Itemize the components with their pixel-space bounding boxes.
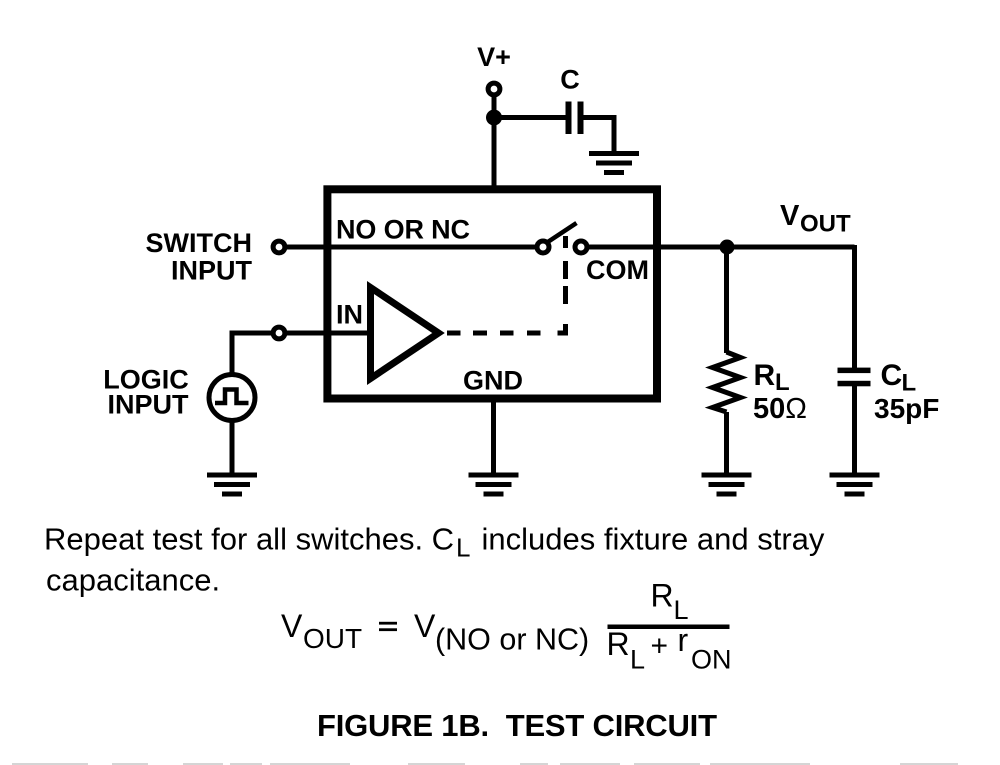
- wire VOUT corner to capacitor CL: [852, 245, 857, 368]
- svg-text:L: L: [456, 533, 470, 563]
- svg-text:C: C: [560, 65, 580, 95]
- svg-text:FIGURE 1B. TEST CIRCUIT: FIGURE 1B. TEST CIRCUIT: [317, 708, 717, 743]
- svg-text:50Ω: 50Ω: [753, 393, 807, 425]
- wire V+ terminal to junction: [492, 95, 497, 118]
- svg-text:NO OR NC: NO OR NC: [336, 215, 470, 245]
- switch S1 contact left: [537, 241, 549, 253]
- ground (below CL): [830, 473, 880, 497]
- svg-text:35pF: 35pF: [874, 393, 939, 424]
- wire COM to VOUT corner: [589, 245, 855, 250]
- svg-text:L: L: [775, 369, 790, 396]
- wire logic source corner to terminal: [232, 333, 271, 374]
- note text line 1: [44, 522, 825, 563]
- svg-text:R: R: [754, 359, 776, 392]
- svg-text:OUT: OUT: [800, 211, 851, 238]
- svg-text:GND: GND: [463, 366, 523, 396]
- svg-text:V+: V+: [477, 42, 511, 72]
- wire VOUT node to resistor RL: [724, 247, 729, 353]
- svg-text:ON: ON: [691, 645, 732, 675]
- formula fraction bar: [608, 625, 730, 630]
- pulse source V1 circle: [209, 375, 255, 421]
- svg-text:C: C: [881, 359, 903, 392]
- terminal V+: [488, 83, 500, 95]
- svg-text:includes fixture and stray: includes fixture and stray: [482, 522, 825, 557]
- wire CL to ground: [852, 386, 857, 473]
- formula VOUT: [281, 608, 362, 654]
- svg-text:INPUT: INPUT: [108, 390, 190, 420]
- wire capacitor C to ground: [584, 118, 615, 153]
- resistor RL: [713, 352, 741, 412]
- terminal LOGIC INPUT: [273, 327, 285, 339]
- label RL: [754, 359, 790, 396]
- switch S1 lever: [547, 223, 577, 243]
- svg-text:L: L: [674, 595, 689, 625]
- switch S1 contact right: [575, 241, 587, 253]
- ground (below pulse source): [207, 473, 257, 497]
- svg-text:r: r: [678, 622, 689, 658]
- formula equals sign: [379, 622, 397, 631]
- formula numerator RL: [651, 578, 689, 626]
- DUT box U1: [327, 189, 657, 398]
- terminal SWITCH INPUT: [273, 241, 285, 253]
- svg-text:Repeat test for all switches.: Repeat test for all switches. C: [44, 522, 454, 557]
- svg-text:R: R: [651, 578, 674, 614]
- formula V(NO or NC): [414, 608, 589, 657]
- svg-text:+: +: [651, 630, 669, 663]
- wire logic input into box to buffer: [287, 331, 370, 336]
- svg-text:SWITCH: SWITCH: [146, 228, 252, 258]
- capacitor C: [566, 102, 584, 135]
- ground (below GND pin): [469, 473, 519, 497]
- junction dot V+ node: [486, 110, 502, 126]
- capacitor CL: [838, 368, 871, 387]
- svg-text:R: R: [607, 626, 630, 662]
- dashed link buffer to switch: [447, 236, 566, 333]
- svg-text:COM: COM: [586, 255, 649, 285]
- ground (top right, for C): [589, 151, 639, 175]
- svg-text:capacitance.: capacitance.: [46, 563, 220, 598]
- svg-text:V: V: [414, 608, 436, 644]
- wire junction to capacitor C: [492, 115, 566, 120]
- label SWITCH INPUT: [146, 228, 253, 285]
- junction dot VOUT node: [720, 240, 735, 255]
- svg-text:V: V: [281, 608, 303, 644]
- label CL: [881, 359, 917, 396]
- ground (below RL): [702, 473, 752, 497]
- wire RL to ground: [724, 412, 729, 473]
- svg-text:L: L: [630, 645, 645, 675]
- buffer amplifier triangle: [371, 288, 439, 379]
- label VOUT: [780, 200, 851, 238]
- svg-text:OUT: OUT: [303, 623, 362, 654]
- cropped next-line text fragments at bottom edge: [12, 763, 958, 765]
- wire switch input to switch: [287, 245, 536, 250]
- label LOGIC INPUT: [103, 364, 189, 419]
- svg-text:V: V: [780, 200, 800, 232]
- wire junction down to box top: [492, 118, 497, 191]
- wire pulse source to ground: [230, 421, 235, 473]
- svg-text:(NO or NC): (NO or NC): [435, 623, 589, 657]
- formula denominator RL + rON: [607, 622, 732, 675]
- svg-text:IN: IN: [336, 300, 363, 330]
- wire GND pin to ground: [491, 398, 496, 473]
- pulse source V1 waveform: [215, 390, 249, 404]
- svg-text:INPUT: INPUT: [171, 256, 253, 286]
